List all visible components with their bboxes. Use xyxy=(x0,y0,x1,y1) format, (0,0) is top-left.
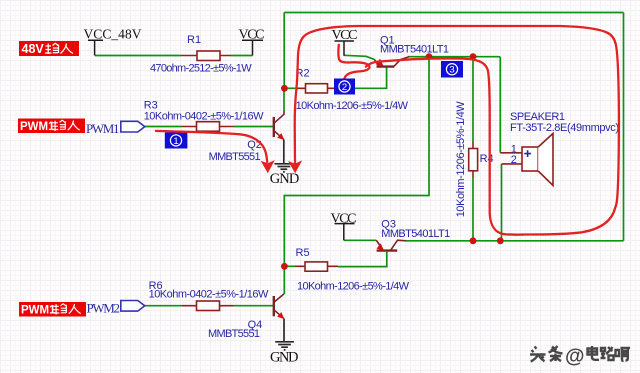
power port VCC pin (R1) xyxy=(242,40,263,55)
callout box 1 xyxy=(165,132,188,148)
power port VCC pin (Q3) xyxy=(335,224,355,241)
wire R6 to Q4 base xyxy=(234,305,274,307)
annotation right-side stroke xyxy=(366,59,523,235)
watermark toutiao xyxy=(530,346,563,362)
svg-text:VCC_48V: VCC_48V xyxy=(84,27,142,42)
svg-text:3: 3 xyxy=(449,65,454,76)
svg-text:PWM1: PWM1 xyxy=(20,121,55,133)
svg-text:R1: R1 xyxy=(187,34,201,46)
port PWM2 xyxy=(121,301,145,312)
resistor R6 xyxy=(182,301,234,311)
svg-text:2: 2 xyxy=(511,154,517,166)
power port VCC pin (Q1) xyxy=(335,41,355,56)
wire R5 right to Q3 base xyxy=(338,252,387,267)
wire mid link node to Q4 collector xyxy=(284,57,429,294)
port PWM1 xyxy=(121,121,145,132)
annotation red arrow stroke (PWM1 to GND) xyxy=(156,26,619,235)
annotation arrowhead at GND (right) xyxy=(288,160,302,173)
ground GND (Q4) xyxy=(275,319,294,350)
svg-text:MMBT5551: MMBT5551 xyxy=(208,328,260,340)
wire big loop bottom to Q3 collector xyxy=(406,240,624,242)
wire big loop top xyxy=(284,12,623,14)
callout box 2 xyxy=(334,79,355,95)
wire big loop left vertical xyxy=(283,13,285,89)
wire node to R4 top xyxy=(472,57,474,142)
wire R4 bottom to net xyxy=(472,178,474,241)
wire R3 to Q2 base xyxy=(234,126,274,128)
transistor Q2 xyxy=(274,112,284,140)
ground GND (Q2) xyxy=(275,140,294,172)
svg-text:MMBT5551: MMBT5551 xyxy=(209,151,261,163)
label PWM1 input red box (bottom) xyxy=(19,302,86,317)
svg-text:GND: GND xyxy=(270,171,300,187)
resistor R3 xyxy=(182,122,234,132)
svg-text:GND: GND xyxy=(270,350,299,366)
transistor Q1 xyxy=(374,57,409,67)
wire Q1 collector to speaker pin1 xyxy=(408,57,500,153)
wire VCC to Q1 emitter xyxy=(344,55,374,59)
svg-text:VCC: VCC xyxy=(331,212,357,227)
power port VCC_48V pin xyxy=(88,40,103,55)
wire PWM1 port to R3 xyxy=(145,126,182,128)
svg-text:2: 2 xyxy=(342,82,347,93)
svg-text:10Kohm-1206-±5%-1/4W: 10Kohm-1206-±5%-1/4W xyxy=(296,100,409,112)
speaker plus sign xyxy=(524,150,531,157)
svg-text:PWM1: PWM1 xyxy=(21,305,56,317)
speaker SPEAKER1 xyxy=(500,134,553,186)
svg-text:1: 1 xyxy=(173,136,178,147)
svg-text:MMBT5401LT1: MMBT5401LT1 xyxy=(381,228,450,240)
wire node to R2 left xyxy=(284,87,297,89)
svg-text:PWM2: PWM2 xyxy=(87,301,121,316)
svg-text:10Kohm-1206-±5%-1/4W: 10Kohm-1206-±5%-1/4W xyxy=(455,101,467,218)
resistor R2 xyxy=(296,84,339,93)
resistor R1 xyxy=(181,51,231,61)
svg-text:10Kohm-1206-±5%-1/4W: 10Kohm-1206-±5%-1/4W xyxy=(297,280,410,292)
svg-text:48V: 48V xyxy=(22,42,45,56)
wire PWM2 port to R6 xyxy=(145,305,182,307)
wire VCC_48V to R1 xyxy=(95,55,181,57)
wire VCC to Q3 emitter xyxy=(344,239,376,241)
resistor R4 xyxy=(469,142,478,178)
svg-text:Q2: Q2 xyxy=(247,139,262,151)
transistor Q3 xyxy=(376,240,406,250)
svg-text:VCC: VCC xyxy=(332,28,358,43)
wire big loop right vertical xyxy=(623,13,625,241)
wire Q2 collector up to node xyxy=(283,88,285,112)
label PWM1 input red box (mid) xyxy=(18,119,85,134)
wire R2 right to Q1 base xyxy=(339,68,387,89)
annotation Q1 loop stroke xyxy=(338,45,369,85)
annotation arrowhead at GND (left) xyxy=(261,160,275,173)
svg-text:R4: R4 xyxy=(480,153,494,165)
annotation big loop stroke xyxy=(295,26,619,235)
svg-text:FT-35T-2.8E(49mmpvc): FT-35T-2.8E(49mmpvc) xyxy=(510,122,619,134)
wire speaker pin2 down xyxy=(501,164,503,241)
svg-text:VCC: VCC xyxy=(239,27,265,42)
svg-text:@: @ xyxy=(565,346,585,368)
transistor Q4 xyxy=(274,294,284,319)
callout box 3 xyxy=(441,61,463,78)
svg-text:10Kohm-0402-±5%-1/16W: 10Kohm-0402-±5%-1/16W xyxy=(144,110,264,122)
junction node dots xyxy=(281,53,504,269)
svg-text:MMBT5401LT1: MMBT5401LT1 xyxy=(380,44,449,56)
label 48V input red box xyxy=(19,41,79,56)
wire R1 to VCC xyxy=(231,55,253,57)
resistor R5 xyxy=(295,262,338,271)
svg-text:R5: R5 xyxy=(296,247,310,259)
wire node to R5 left xyxy=(284,265,295,267)
svg-text:10Kohm-0402-±5%-1/16W: 10Kohm-0402-±5%-1/16W xyxy=(149,288,269,300)
svg-text:PWM1: PWM1 xyxy=(86,121,120,136)
svg-text:470ohm-2512-±5%-1W: 470ohm-2512-±5%-1W xyxy=(150,63,252,75)
